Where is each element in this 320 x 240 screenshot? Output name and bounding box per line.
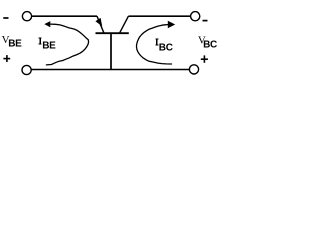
transistor Q1 emitter arrowhead: [95, 18, 102, 26]
svg-text:BE: BE: [8, 39, 22, 50]
terminal base right (bottom-right open circle): [189, 65, 198, 74]
wire collector top-right: [128, 15, 190, 17]
minus sign (left, V_BE negative): [3, 17, 8, 19]
label V_BC: [198, 34, 217, 50]
wire emitter top-left: [32, 15, 97, 17]
current loop I_BC arrow (curved): [137, 25, 172, 64]
svg-text:BC: BC: [203, 40, 217, 51]
terminal base left (bottom-left open circle): [22, 65, 31, 74]
transistor Q1 collector leg: [120, 16, 129, 33]
label I_BC (serif I drawn): [155, 38, 172, 53]
terminal emitter (top-left open circle): [22, 12, 31, 21]
label I_BE (serif I drawn): [38, 37, 56, 51]
transistor Q1 emitter leg: [97, 16, 104, 33]
svg-text:BC: BC: [159, 42, 173, 53]
current loop I_BE arrow (curved): [46, 24, 88, 65]
minus sign (right, V_BC negative): [203, 20, 208, 22]
plus sign (left, V_BE positive): [3, 55, 10, 62]
transistor Q1 base bar: [96, 32, 129, 34]
transistor Q1 base lead: [110, 33, 112, 69]
svg-text:BE: BE: [42, 41, 56, 52]
label V_BE: [2, 34, 23, 49]
terminal collector (top-right open circle): [191, 12, 200, 21]
plus sign (right, V_BC positive): [201, 55, 208, 62]
wire base bottom rail: [32, 69, 190, 71]
current loop I_BC arrowhead: [168, 21, 175, 29]
current loop I_BE arrowhead: [44, 21, 50, 27]
